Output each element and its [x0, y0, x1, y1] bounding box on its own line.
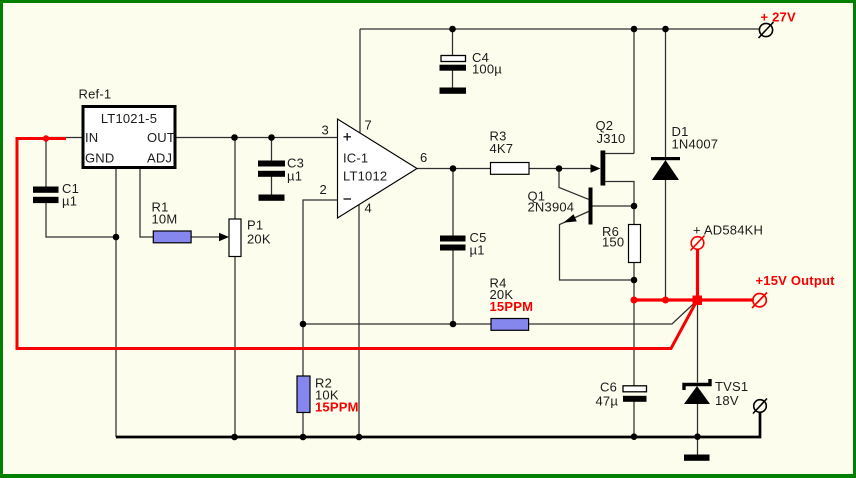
- wire Q2 source: [605, 182, 634, 207]
- node bus TVS1: [694, 433, 701, 440]
- resistor R4: [491, 319, 529, 331]
- wire D1 bottom to red bus: [665, 179, 667, 300]
- wire Q2 drain vertical: [633, 29, 635, 154]
- diode D1: [651, 157, 680, 160]
- minus sign: [344, 198, 352, 200]
- wire C6 bottom: [633, 402, 635, 438]
- svg-text:10M: 10M: [152, 212, 178, 227]
- svg-text:LT1021-5: LT1021-5: [101, 111, 157, 126]
- wire OUT to op-amp pin3: [177, 137, 338, 139]
- node bus C6: [631, 433, 638, 440]
- terminal ground output: [753, 399, 767, 414]
- svg-text:15PPM: 15PPM: [315, 400, 359, 415]
- wire GND pin vertical: [115, 168, 117, 437]
- wire C4 bottom: [452, 71, 454, 88]
- svg-text:Ref-1: Ref-1: [79, 86, 112, 101]
- resistor R6: [629, 225, 641, 263]
- wiper arrow P1: [219, 233, 229, 242]
- svg-text:+15V Output: +15V Output: [756, 273, 836, 288]
- wire R1 to P1 wiper: [191, 236, 222, 238]
- red wire AD584KH vertical: [696, 250, 699, 302]
- capacitor C1: [33, 187, 59, 204]
- wire C1 top: [45, 138, 47, 187]
- wire C4 top: [452, 29, 454, 56]
- node C5 bottom: [450, 321, 457, 328]
- node red junction IN: [43, 135, 49, 141]
- transistor Q2 J310: [601, 151, 606, 186]
- wire C1 bottom: [46, 203, 116, 237]
- node Q1 base: [556, 165, 563, 172]
- svg-text:2N3904: 2N3904: [528, 199, 575, 214]
- wire R3 to Q2 gate: [529, 168, 593, 170]
- svg-text:1N4007: 1N4007: [672, 137, 719, 152]
- svg-text:47µ: 47µ: [596, 394, 619, 409]
- wire P1 top: [234, 138, 236, 220]
- node C5 top: [450, 165, 457, 172]
- capacitor C6: [623, 386, 647, 392]
- wire ADJ to R1: [140, 168, 154, 237]
- ground C3: [259, 195, 285, 201]
- wire TVS1 bottom: [697, 404, 699, 437]
- svg-text:+ AD584KH: + AD584KH: [693, 222, 763, 237]
- wire top rail: [360, 28, 759, 30]
- wire R6 top: [633, 206, 635, 225]
- svg-text:C6: C6: [600, 380, 617, 395]
- svg-text:150: 150: [602, 234, 624, 249]
- terminal +15V Output: [752, 293, 767, 309]
- terminal +27V: [759, 22, 774, 38]
- svg-text:µ1: µ1: [470, 243, 485, 258]
- wire R2 bottom: [302, 413, 304, 438]
- node D1 rail: [662, 26, 669, 33]
- capacitor C4: [441, 56, 466, 62]
- wire pin7 vertical: [359, 29, 361, 133]
- node red junction +15V: [693, 296, 703, 306]
- wire Q1 emitter: [560, 212, 635, 281]
- wire C5 bottom: [452, 250, 454, 324]
- wire R4 right to +15V node: [529, 301, 697, 325]
- svg-text:15PPM: 15PPM: [490, 299, 534, 314]
- wire Q1 collector: [593, 205, 635, 207]
- svg-text:4: 4: [365, 201, 372, 216]
- wire op-amp pin2: [303, 200, 338, 324]
- node pin2 R2: [300, 321, 307, 328]
- wire Ref-1 IN: [46, 137, 82, 139]
- svg-text:100µ: 100µ: [472, 62, 502, 77]
- voltage reference Ref-1 LT1021-5: [83, 107, 175, 168]
- wire P1 bottom: [234, 257, 236, 438]
- svg-text:GND: GND: [85, 150, 115, 165]
- svg-text:4K7: 4K7: [490, 141, 514, 156]
- red wire sense loop: [17, 139, 697, 349]
- svg-text:LT1012: LT1012: [343, 169, 387, 184]
- ground TVS1: [684, 455, 710, 461]
- resistor R3: [491, 163, 530, 175]
- diode TVS1: [684, 379, 710, 404]
- node bus P1: [231, 434, 238, 441]
- wire TVS1 top: [697, 300, 699, 383]
- wire D1 top: [665, 29, 667, 158]
- node bus pin4: [356, 434, 363, 441]
- wire TVS1 to ground bar: [697, 437, 699, 455]
- svg-text:IN: IN: [85, 130, 98, 145]
- junction dots black: [113, 26, 701, 441]
- svg-text:OUT: OUT: [147, 130, 175, 145]
- wire R6 bottom: [633, 263, 635, 301]
- node red junction C6: [631, 297, 638, 304]
- wire C6 top: [633, 300, 635, 386]
- wire Q2 drain horizontal: [605, 153, 634, 155]
- ground bus: [116, 413, 760, 438]
- terminal AD584KH: [691, 236, 705, 251]
- node bus R2: [300, 434, 307, 441]
- node red junction D1: [662, 297, 669, 304]
- svg-text:J310: J310: [597, 131, 626, 146]
- op-amp IC-1: [338, 119, 418, 218]
- node C4 top: [449, 26, 456, 33]
- wire Q1 base: [559, 169, 589, 200]
- node R6 bottom: [631, 277, 638, 284]
- svg-text:3: 3: [322, 122, 329, 137]
- node C1 bottom: [113, 234, 120, 241]
- wire C5 top: [452, 169, 454, 236]
- resistor R2: [297, 376, 310, 413]
- wire op-amp pin4: [358, 205, 360, 438]
- svg-text:+ 27V: + 27V: [761, 10, 796, 25]
- node C3 top: [268, 134, 275, 141]
- svg-text:18V: 18V: [715, 393, 739, 408]
- transistor Q1 2N3904: [589, 188, 593, 225]
- ground C4: [440, 88, 467, 94]
- svg-text:P1: P1: [247, 218, 263, 233]
- svg-text:20K: 20K: [247, 231, 271, 246]
- node R6 top: [631, 203, 638, 210]
- svg-text:7: 7: [365, 117, 372, 132]
- svg-text:IC-1: IC-1: [343, 151, 368, 166]
- potentiometer P1: [229, 219, 241, 257]
- wire C3 bottom: [271, 177, 273, 195]
- red wire +15V bus: [634, 298, 753, 301]
- svg-text:µ1: µ1: [287, 169, 302, 184]
- capacitor C5: [440, 236, 466, 251]
- wire C3 top: [271, 138, 273, 161]
- node Q2 drain rail: [631, 26, 638, 33]
- wire pin6 to R3: [417, 168, 491, 170]
- plus sign: [344, 133, 352, 199]
- svg-text:2: 2: [320, 182, 327, 197]
- svg-text:µ1: µ1: [62, 194, 77, 209]
- svg-text:TVS1: TVS1: [715, 379, 748, 394]
- resistor R1: [153, 231, 191, 243]
- svg-text:ADJ: ADJ: [147, 150, 172, 165]
- wire feedback row y324: [303, 323, 491, 325]
- node P1 top: [231, 134, 238, 141]
- capacitor C3: [258, 161, 285, 177]
- svg-text:6: 6: [420, 150, 427, 165]
- wire R2 top: [302, 324, 304, 376]
